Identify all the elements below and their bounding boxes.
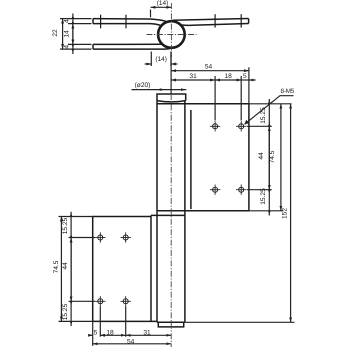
hole tick marks on plan bars	[101, 14, 242, 28]
svg-text:(ø20): (ø20)	[135, 82, 151, 89]
right plate curl line	[190, 110, 192, 209]
svg-text:(14): (14)	[157, 0, 169, 7]
svg-text:44: 44	[62, 262, 69, 270]
right plate outline	[157, 104, 249, 211]
barrel top cap	[157, 94, 186, 101]
screw holes: right plate	[210, 121, 247, 195]
barrel body	[156, 101, 158, 323]
barrel bottom cap	[158, 322, 183, 327]
svg-text:(14): (14)	[155, 56, 167, 63]
right leaf bar (plan)	[173, 19, 249, 21]
svg-text:31: 31	[190, 73, 198, 80]
left leaf lower bar (plan)	[93, 43, 162, 45]
svg-text:22: 22	[52, 29, 59, 37]
dimension (14) top	[151, 7, 172, 17]
svg-text:5: 5	[243, 73, 247, 80]
dimension 22 (left of plan)	[60, 14, 92, 55]
screw holes: left plate	[95, 232, 131, 306]
left plate curl line	[150, 215, 152, 321]
bottom chain dims: 5 18 31 / 54	[88, 307, 171, 346]
svg-text:15.25: 15.25	[62, 217, 69, 234]
front view centerline	[170, 94, 172, 347]
knuckle circle (plan)	[158, 21, 185, 48]
dimension (phi20)	[132, 89, 187, 91]
svg-text:15.25: 15.25	[260, 188, 267, 205]
knuckle seam upper	[157, 210, 185, 212]
svg-text:4: 4	[64, 45, 71, 49]
4 / 14 / 4 chain line	[72, 14, 74, 55]
svg-text:18: 18	[106, 329, 114, 336]
svg-text:5: 5	[94, 329, 98, 336]
svg-text:54: 54	[205, 64, 213, 71]
right side dims: 15.25 44 15.25 / 74.5 / 152	[185, 99, 295, 322]
svg-text:14: 14	[64, 30, 71, 38]
plan centerlines	[147, 3, 197, 57]
svg-text:44: 44	[258, 152, 265, 160]
8-M5 label and leader	[245, 96, 294, 125]
svg-text:152: 152	[281, 208, 288, 219]
top chain dims: 54 / 31 18 5	[171, 52, 256, 121]
svg-text:18: 18	[225, 73, 233, 80]
svg-text:54: 54	[127, 338, 135, 345]
left leaf upper bar (plan)	[93, 19, 166, 22]
knuckle seam lower	[151, 214, 185, 216]
left side dims: 15.25 44 15.25 / 74.5	[59, 212, 96, 326]
svg-text:74.5: 74.5	[53, 260, 60, 273]
dimension (14) bottom	[145, 52, 178, 67]
svg-text:31: 31	[143, 329, 151, 336]
svg-text:8-M5: 8-M5	[281, 88, 295, 95]
left plate outline	[93, 217, 157, 322]
svg-text:74.5: 74.5	[269, 150, 276, 163]
svg-text:15.25: 15.25	[62, 303, 69, 320]
svg-text:4: 4	[64, 19, 71, 23]
